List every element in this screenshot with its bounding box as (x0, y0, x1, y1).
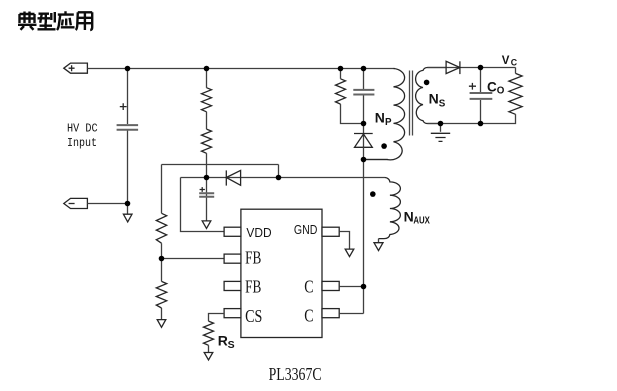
wire vdd cap stem (206, 178, 208, 221)
wire Co stems (480, 68, 482, 124)
wire GND pin to ground (339, 232, 349, 250)
ground vdd cap (202, 221, 211, 229)
capacitor Cin (117, 125, 139, 130)
diode D clamp (354, 133, 373, 135)
ground Rs (204, 353, 213, 361)
pin CS box (224, 309, 241, 318)
capacitor Co (470, 93, 493, 99)
plus sign C vdd (200, 187, 205, 192)
node dot switch-C (361, 284, 367, 290)
wire top rail (87, 68, 394, 70)
svg-text:C: C (511, 58, 518, 68)
capacitor C vdd (199, 193, 214, 196)
diode D vdd (225, 170, 227, 185)
pin FB2 box (224, 281, 241, 290)
svg-text:PL3367C: PL3367C (269, 364, 322, 384)
pin GND box (322, 227, 339, 236)
svg-text:P: P (385, 117, 392, 128)
wire input cap branch (127, 69, 129, 204)
svg-text:C: C (304, 306, 313, 326)
node dot minus (125, 201, 131, 207)
svg-text:VDD: VDD (246, 225, 271, 240)
pin C1 box (322, 281, 339, 290)
ground GND pin (345, 249, 354, 257)
wire Rs ground stem (208, 345, 210, 352)
node dot rail-cin (125, 66, 131, 72)
svg-text:AUX: AUX (413, 216, 430, 227)
diode D out (428, 67, 516, 69)
svg-text:V: V (502, 55, 510, 67)
node dot snub-junction (361, 121, 367, 127)
svg-text:GND: GND (294, 222, 318, 237)
plus sign Co (469, 83, 476, 90)
transformer aux Naux winding (379, 178, 401, 239)
wire switch node vertical (363, 147, 365, 286)
node dot aux-sense (276, 175, 282, 181)
wire snubber resistor branch (341, 69, 364, 124)
svg-text:C: C (304, 277, 313, 297)
node dot Np phase (381, 143, 387, 149)
node dot out-bottom-co (478, 121, 484, 127)
node dot out-bottom-ns (438, 121, 444, 127)
svg-text:N: N (404, 208, 414, 224)
connector J+ (HV DC +) (64, 63, 88, 73)
node dot rail-snubR (338, 66, 344, 72)
node dot primary-bottom (361, 157, 367, 163)
svg-text:FB: FB (245, 247, 261, 267)
svg-text:Input: Input (67, 136, 97, 150)
svg-text:HV DC: HV DC (67, 122, 98, 136)
ground earth Ns (431, 133, 450, 141)
wire output node (428, 68, 516, 124)
svg-text:N: N (429, 91, 439, 107)
wire node A (aux sense line) (162, 165, 279, 214)
svg-text:C: C (487, 79, 497, 94)
plus sign Cin (120, 103, 127, 110)
wire Ns earth stem (440, 124, 442, 132)
ground Naux (374, 243, 383, 251)
svg-text:O: O (497, 85, 505, 96)
wire Naux ground stem (378, 239, 380, 243)
connector J- (HV DC -) (64, 198, 88, 208)
resistor R snubber (336, 79, 346, 104)
resistor R load (509, 73, 522, 114)
transformer core (410, 71, 413, 136)
resistor R startup lower (202, 129, 212, 153)
wire FB stub (162, 258, 225, 260)
node dot Vc (478, 65, 484, 71)
node dot Naux phase (370, 191, 376, 197)
transformer secondary Ns winding (416, 68, 447, 124)
pin C2 box (322, 309, 339, 318)
svg-text:R: R (218, 332, 228, 348)
wire FB divider (161, 243, 163, 319)
wire node B (vdd diode line) (181, 177, 386, 179)
node dot rail-startup (204, 66, 210, 72)
wire minus stub (87, 204, 127, 215)
wire C pins to switch node (339, 287, 363, 314)
IC U1 PL3367C body (241, 209, 322, 337)
wire primary bottom (364, 159, 389, 161)
transformer primary Np winding (364, 69, 405, 160)
resistor R fb lower (156, 281, 166, 308)
svg-text:N: N (375, 110, 385, 126)
ground input (123, 214, 132, 222)
resistor Rs (204, 321, 214, 345)
node dot Ns phase (424, 80, 430, 86)
wire snubber cap branch (363, 69, 365, 148)
resistor R fb upper (156, 213, 166, 243)
node dot fb (159, 256, 165, 262)
node dot rail-snubC (361, 66, 367, 72)
svg-text:CS: CS (245, 306, 262, 326)
svg-text:S: S (439, 99, 446, 110)
resistor R startup upper (202, 88, 212, 112)
pin VDD box (224, 227, 241, 236)
node dot vddcap (204, 175, 210, 181)
wire startup chain (206, 69, 208, 178)
svg-text:S: S (228, 339, 235, 351)
wire CS to Rs (209, 314, 225, 322)
svg-text:FB: FB (245, 277, 261, 297)
ground fb divider (157, 320, 166, 328)
pin FB1 box (224, 254, 241, 263)
wire VDD pin feed (181, 178, 225, 232)
capacitor C snubber (353, 90, 374, 95)
title 典型应用 (drawn strokes) (18, 11, 92, 30)
